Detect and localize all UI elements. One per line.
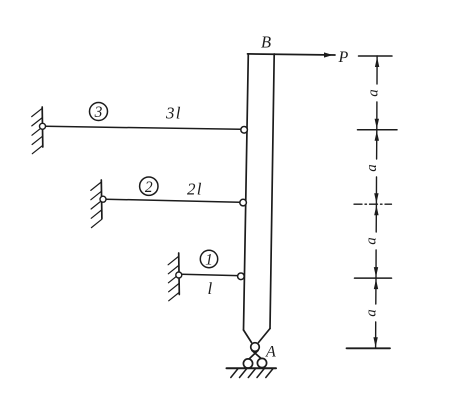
roller left (243, 359, 252, 368)
column right line (270, 54, 274, 329)
dimension tick 4 (355, 277, 392, 279)
ground hatching (231, 369, 273, 378)
bar 2 wall line (100, 180, 103, 219)
svg-text:2: 2 (145, 179, 153, 196)
support cross leg left (249, 351, 259, 360)
dimension vertical line (376, 56, 378, 348)
svg-text:3: 3 (94, 104, 103, 121)
bar 1 (182, 274, 238, 275)
column taper right (259, 329, 271, 343)
svg-text:B: B (261, 33, 271, 52)
bar 3 (45, 126, 240, 129)
bar 1 wall hatching (168, 256, 179, 300)
column left line (244, 54, 249, 330)
dimension arrows (373, 57, 379, 347)
bar 2 right pin (240, 199, 247, 206)
dimension tick top (359, 55, 393, 57)
roller right (257, 358, 266, 367)
svg-text:l: l (208, 279, 213, 298)
svg-text:a: a (363, 309, 379, 317)
bar 3 wall line (41, 107, 44, 147)
bar 2 left pin (100, 196, 106, 202)
svg-text:a: a (364, 164, 380, 172)
svg-text:P: P (338, 49, 349, 66)
dimension tick 3 (dash-dot) (354, 203, 392, 205)
bar 1 wall line (178, 253, 181, 295)
svg-text:a: a (364, 237, 380, 245)
svg-text:2l: 2l (187, 180, 203, 199)
dimension tick 2 (358, 129, 398, 131)
ground line (227, 367, 277, 369)
svg-text:3l: 3l (165, 104, 182, 123)
dimension tick bottom (347, 347, 391, 349)
svg-text:a: a (365, 89, 381, 97)
bar 1 left pin (176, 272, 182, 278)
force line at B (248, 54, 336, 55)
svg-text:1: 1 (205, 252, 213, 269)
arrowhead P (324, 52, 333, 57)
label circled 1 (200, 250, 217, 268)
bar 3 wall hatching (32, 108, 43, 153)
label circled 2 (140, 177, 158, 196)
column taper left (244, 330, 252, 343)
label circled 3 (90, 103, 108, 122)
bar 3 right pin (241, 127, 248, 134)
bar 2 wall hatching (91, 182, 102, 228)
bar 1 right pin (238, 273, 245, 280)
support cross leg right (252, 351, 262, 359)
bar 3 left pin (40, 123, 46, 129)
support pin circle at tip (251, 343, 260, 352)
bar 2 (106, 199, 240, 202)
svg-text:A: A (265, 344, 276, 361)
